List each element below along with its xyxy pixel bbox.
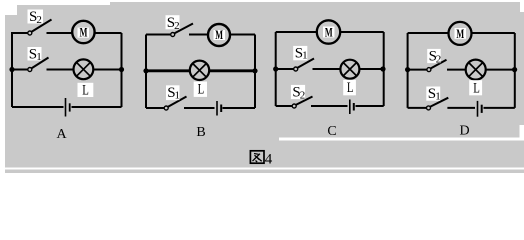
lamp L (circuit D) xyxy=(466,60,486,97)
wire D mid switch-lamp segment xyxy=(447,69,466,71)
wire D bottom right segment xyxy=(484,107,515,109)
wire D top right segment xyxy=(472,32,515,34)
wire C mid switch-lamp segment xyxy=(313,68,341,70)
node C-right junction xyxy=(380,66,385,71)
wire C bottom left segment xyxy=(276,105,293,107)
svg-text:L: L xyxy=(82,82,89,98)
wire D mid left segment xyxy=(408,69,427,71)
wire B bottom mid segment xyxy=(184,107,215,109)
wire B bottom right segment xyxy=(223,107,256,109)
wire A bottom right segment xyxy=(72,106,122,108)
lamp L (circuit B) xyxy=(190,61,209,98)
switch S2 (circuit A) xyxy=(28,9,52,35)
node D-right junction xyxy=(512,67,517,72)
svg-text:1: 1 xyxy=(302,50,308,62)
svg-text:M: M xyxy=(80,25,88,39)
wire B mid right segment xyxy=(210,69,256,72)
svg-text:C: C xyxy=(327,124,336,139)
svg-text:1: 1 xyxy=(36,51,42,63)
wire D right xyxy=(514,33,516,108)
switch S1 (circuit B) xyxy=(164,85,186,110)
svg-text:B: B xyxy=(196,125,205,140)
wire A top motor-right segment xyxy=(94,32,121,34)
caption 图4 xyxy=(250,151,272,168)
svg-text:L: L xyxy=(198,82,205,98)
lamp L (circuit A) xyxy=(74,59,94,98)
motor M (circuit C) xyxy=(317,20,340,43)
wire C mid right segment xyxy=(360,68,384,70)
wire C top left segment xyxy=(276,31,317,33)
wire D left xyxy=(407,33,409,108)
motor M (circuit B) xyxy=(208,24,230,46)
wire D bottom left segment xyxy=(408,107,427,109)
battery (circuit D) xyxy=(478,101,482,117)
switch S2 (circuit D) xyxy=(427,48,447,71)
wire B bottom left segment xyxy=(146,107,165,109)
switch S2 (circuit C) xyxy=(291,84,313,108)
svg-text:M: M xyxy=(215,28,223,42)
svg-text:2: 2 xyxy=(436,54,442,66)
svg-text:1: 1 xyxy=(435,90,441,102)
switch S1 (circuit A) xyxy=(28,46,49,71)
wire C bottom mid segment xyxy=(311,105,348,107)
svg-text:2: 2 xyxy=(300,90,306,102)
gray scanned panel background xyxy=(0,0,524,173)
wire D top left segment xyxy=(408,32,449,34)
node C-left junction xyxy=(273,66,278,71)
svg-text:D: D xyxy=(459,124,469,139)
svg-text:M: M xyxy=(456,27,464,41)
wire B mid left segment xyxy=(146,69,190,72)
node B-left junction xyxy=(143,68,148,73)
node B-right junction xyxy=(252,68,257,73)
wire B top motor-right segment xyxy=(230,34,255,36)
lamp L (circuit C) xyxy=(340,60,359,96)
node A-left junction xyxy=(9,67,14,72)
wire B top left segment xyxy=(146,34,171,36)
wire A bottom left segment xyxy=(12,106,64,108)
motor M (circuit A) xyxy=(72,21,94,43)
wire A top left segment xyxy=(11,32,28,34)
wire B top right segment xyxy=(189,34,208,36)
wire A mid right segment xyxy=(47,69,74,71)
wire C right xyxy=(383,32,385,106)
switch S1 (circuit D) xyxy=(426,86,448,110)
switch S1 (circuit C) xyxy=(293,45,314,71)
wire B right xyxy=(254,35,256,109)
node A-right junction xyxy=(119,67,124,72)
battery (circuit C) xyxy=(350,100,354,115)
motor M (circuit D) xyxy=(449,22,472,45)
svg-text:L: L xyxy=(473,80,480,96)
svg-text:L: L xyxy=(347,80,354,96)
wire C top right segment xyxy=(341,31,384,33)
battery (circuit A) xyxy=(66,98,70,117)
battery (circuit B) xyxy=(217,101,221,116)
wire C left xyxy=(275,32,277,106)
wire A mid lamp-right segment xyxy=(94,69,122,71)
svg-text:1: 1 xyxy=(175,89,181,101)
svg-text:4: 4 xyxy=(265,151,273,167)
wire D bottom mid segment xyxy=(447,107,475,109)
wire C bottom right segment xyxy=(356,105,384,107)
wire B left xyxy=(145,35,147,109)
switch S2 (circuit B) xyxy=(166,15,194,37)
wire D mid right segment xyxy=(486,69,515,71)
node D-left junction xyxy=(405,67,410,72)
svg-text:A: A xyxy=(56,127,67,142)
wire C mid left segment xyxy=(276,68,294,70)
wire A mid left segment xyxy=(12,69,28,71)
wire A left xyxy=(11,33,13,107)
svg-text:2: 2 xyxy=(36,14,42,26)
svg-text:2: 2 xyxy=(174,20,180,32)
wire A top right segment xyxy=(47,32,73,34)
wire A right xyxy=(121,33,123,107)
svg-text:M: M xyxy=(325,25,333,39)
